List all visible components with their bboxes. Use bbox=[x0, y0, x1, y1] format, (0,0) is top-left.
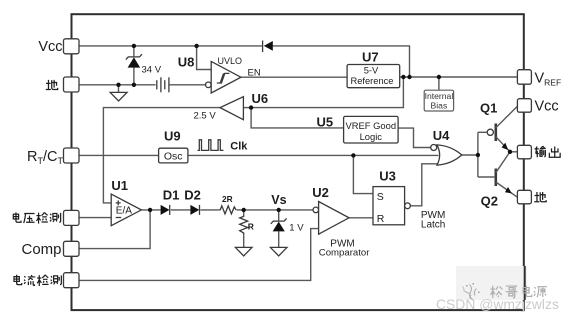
svg-text:U3: U3 bbox=[379, 169, 396, 184]
or-gate U4 bbox=[431, 145, 462, 166]
pin label current sense 电流检测 bbox=[14, 275, 61, 286]
svg-text:Osc: Osc bbox=[164, 150, 183, 162]
wire Q1 base segment bbox=[478, 131, 487, 133]
svg-text:Comp: Comp bbox=[21, 241, 61, 258]
label R bbox=[248, 222, 254, 232]
wire VREF net U7 output to VREF pin bbox=[400, 76, 518, 78]
junction: output pin node Q1/Q2 bbox=[508, 150, 512, 154]
label U1 bbox=[111, 178, 128, 193]
wire driver vertical between Q1 and Q2 bases bbox=[477, 132, 479, 177]
pin label VREF bbox=[535, 71, 562, 88]
svg-text:D1: D1 bbox=[163, 188, 180, 203]
svg-text:Vcc: Vcc bbox=[38, 39, 62, 55]
pin box current sense bbox=[64, 273, 80, 288]
junction: divider node at R bbox=[242, 208, 246, 212]
junction: zener top on Vcc rail bbox=[132, 44, 136, 48]
svg-text:U2: U2 bbox=[312, 185, 329, 200]
label PWM Comparator bbox=[319, 238, 370, 258]
wire U4 output to driver node bbox=[462, 154, 478, 156]
wire VREF branch down to U6 input line bbox=[251, 77, 403, 108]
watermark text 松哥电源 bbox=[490, 285, 547, 297]
svg-text:D2: D2 bbox=[184, 188, 201, 203]
label U6 bbox=[252, 91, 269, 106]
svg-text:2R: 2R bbox=[222, 194, 233, 204]
junction: Vs node bbox=[277, 208, 281, 212]
svg-text:1 V: 1 V bbox=[289, 223, 304, 234]
svg-text:Logic: Logic bbox=[360, 131, 383, 142]
label Clk bbox=[230, 140, 248, 152]
block Internal Bias bbox=[424, 90, 453, 111]
pin box VREF (right) bbox=[517, 70, 531, 85]
label Vs bbox=[271, 193, 286, 207]
label U8 bbox=[178, 55, 195, 70]
svg-text:E/A: E/A bbox=[116, 206, 132, 217]
pin label output 输出 bbox=[535, 146, 561, 157]
svg-text:Vcc: Vcc bbox=[535, 99, 559, 115]
op-amp U6 (2.5V reference buffer, points left) bbox=[220, 97, 243, 120]
IC boundary frame bbox=[72, 14, 524, 310]
wire R bottom to ground bbox=[243, 235, 245, 247]
junction: VREF net to Internal Bias bbox=[437, 75, 441, 79]
label 2R bbox=[222, 194, 233, 204]
pin label Comp bbox=[21, 241, 61, 258]
pin box Vcc (right) bbox=[517, 99, 531, 113]
pin box ground (left) bbox=[64, 77, 80, 92]
svg-text:U5: U5 bbox=[317, 115, 334, 130]
label UVLO bbox=[218, 56, 243, 66]
label U3 bbox=[379, 169, 396, 184]
resistor 2R horizontal bbox=[218, 206, 236, 214]
svg-text:Latch: Latch bbox=[421, 220, 445, 231]
svg-text:S: S bbox=[377, 191, 384, 203]
op-amp U2 PWM comparator bbox=[313, 202, 349, 235]
battery B1 (UVLO threshold) bbox=[157, 77, 169, 92]
label D2 bbox=[184, 188, 201, 203]
junction: Clk line to U3 S branch bbox=[351, 153, 355, 157]
label U7 bbox=[362, 50, 379, 65]
label EN bbox=[248, 68, 261, 79]
junction: VREF net to U6 branch bbox=[401, 75, 405, 79]
pin box ground (right) bbox=[517, 190, 531, 204]
pin label RT/CT bbox=[27, 149, 63, 166]
svg-text:EN: EN bbox=[248, 68, 261, 79]
wire 2.5V from U6 output to U1 plus input bbox=[103, 108, 220, 203]
wire U6 input stub bbox=[243, 107, 251, 109]
pin label ground (right) 地 bbox=[534, 192, 546, 202]
svg-text:U4: U4 bbox=[433, 128, 450, 143]
transistor Q2 bbox=[496, 152, 518, 197]
wire Clk branch down to U3 S input bbox=[353, 155, 373, 193]
svg-text:2.5 V: 2.5 V bbox=[194, 111, 217, 122]
junction: U6 input node bbox=[249, 105, 253, 109]
label U9 bbox=[164, 129, 181, 144]
svg-text:U9: U9 bbox=[164, 129, 181, 144]
svg-text:CSDN @wmzjzwlzs: CSDN @wmzjzwlzs bbox=[436, 296, 559, 312]
wire ground rail bbox=[79, 84, 156, 86]
wire Comp pin feedback to U1 output bbox=[79, 210, 150, 249]
svg-text:Vs: Vs bbox=[271, 193, 286, 207]
wire 34V zener top bbox=[133, 46, 135, 57]
svg-text:5-V: 5-V bbox=[364, 66, 379, 76]
wire 34V zener bottom bbox=[133, 67, 135, 84]
svg-text:34 V: 34 V bbox=[142, 64, 162, 75]
junction: UVLO sense tap on Vcc rail bbox=[194, 44, 198, 48]
label U4 bbox=[433, 128, 450, 143]
svg-text:VREF Good: VREF Good bbox=[346, 120, 397, 131]
watermark logo bbox=[463, 283, 480, 300]
label U2 bbox=[312, 185, 329, 200]
wire Clk line Osc to U4 middle input bbox=[188, 154, 439, 156]
wire U3 output to U4 bottom input bbox=[410, 164, 438, 206]
label D1 bbox=[163, 188, 180, 203]
svg-text:U7: U7 bbox=[362, 50, 379, 65]
junction: VREF net to Vcc diode branch bbox=[407, 75, 411, 79]
wire D2 to 2R bbox=[200, 209, 218, 211]
svg-text:Comparator: Comparator bbox=[319, 248, 370, 259]
pin label ground (left) 地 bbox=[46, 80, 58, 90]
diode D1 bbox=[161, 205, 170, 215]
wire U6 input node down to U5 input bbox=[251, 108, 344, 128]
ground under zener bbox=[270, 247, 287, 256]
transistor Q1 bbox=[487, 106, 517, 152]
pin label voltage sense 电压检测 bbox=[13, 212, 60, 223]
svg-text:R: R bbox=[248, 222, 254, 232]
svg-text:Clk: Clk bbox=[230, 140, 248, 152]
junction: U1 output / Comp node bbox=[148, 208, 152, 212]
wire 2R to Vs node to U2 bubble bbox=[237, 209, 314, 211]
pin box output (right) bbox=[517, 145, 531, 159]
junction: U4 output drive node bbox=[476, 153, 480, 157]
wire output node to output pin bbox=[510, 151, 517, 153]
block U5 VREF Good Logic bbox=[344, 116, 399, 143]
wire UVLO sense drop to U8 upper input bbox=[197, 46, 212, 70]
wire Q2 base segment bbox=[478, 176, 494, 178]
diode D3 (Vcc to VREF, pointing left) bbox=[263, 41, 273, 53]
pin box RT/CT bbox=[64, 148, 80, 163]
pin box voltage sense bbox=[64, 210, 80, 225]
block U9 oscillator bbox=[159, 148, 188, 163]
diode D2 bbox=[190, 205, 199, 215]
junction: zener bottom on ground rail bbox=[132, 83, 136, 87]
wire RT/CT pin to Osc bbox=[79, 154, 159, 156]
svg-text:U8: U8 bbox=[178, 55, 195, 70]
wire U1 output to D1 bbox=[141, 209, 160, 211]
label U5 bbox=[317, 115, 334, 130]
wire voltage sense pin to U1 minus input bbox=[79, 217, 111, 219]
label PWM Latch bbox=[421, 210, 445, 231]
svg-text:Q2: Q2 bbox=[481, 194, 498, 209]
label Q1 bbox=[480, 101, 497, 116]
zener diode 34V bbox=[126, 54, 142, 67]
wire U5 output to U4 top input bbox=[398, 128, 431, 147]
svg-text:Q1: Q1 bbox=[480, 101, 497, 116]
wire R divider drop bbox=[243, 210, 245, 215]
svg-text:Internal: Internal bbox=[425, 91, 454, 101]
wire U2 output to U3 R input bbox=[349, 217, 373, 219]
svg-text:Bias: Bias bbox=[431, 101, 448, 111]
block U7 5-V Reference bbox=[347, 65, 400, 88]
wire Vcc rail right of diode to VREF node bbox=[273, 46, 410, 77]
label 1 V bbox=[289, 223, 304, 234]
watermark panel bbox=[456, 266, 527, 300]
watermark text CSDN bbox=[436, 296, 559, 312]
svg-text:U1: U1 bbox=[111, 178, 128, 193]
pin label Vcc (left) bbox=[38, 39, 62, 55]
svg-text:UVLO: UVLO bbox=[218, 56, 243, 66]
op-amp U8 UVLO comparator bbox=[206, 61, 241, 93]
label Q2 bbox=[481, 194, 498, 209]
wire Vs node to 1V zener bbox=[278, 210, 280, 221]
wire Vcc rail left bbox=[79, 45, 263, 47]
latch U3 S-R bbox=[373, 187, 410, 225]
Clk waveform pulses bbox=[198, 140, 224, 151]
wire 1V zener to ground bbox=[278, 231, 280, 247]
resistor R vertical bbox=[240, 215, 248, 236]
label 2.5 V bbox=[194, 111, 217, 122]
ground under R bbox=[235, 247, 252, 256]
label 34 V bbox=[142, 64, 162, 75]
zener diode 1V bbox=[271, 218, 287, 231]
wire D1 to D2 bbox=[171, 209, 191, 211]
wire current sense pin to U2 lower input bbox=[79, 229, 319, 281]
svg-text:R: R bbox=[377, 213, 385, 225]
ground symbol (under ground rail) bbox=[110, 92, 127, 101]
pin box Comp bbox=[64, 241, 80, 256]
wire battery to U8 lower input bbox=[170, 84, 206, 86]
wire Internal Bias drop bbox=[438, 77, 440, 90]
svg-text:U6: U6 bbox=[252, 91, 269, 106]
pin label Vcc (right) bbox=[535, 99, 559, 115]
op-amp U1 error amplifier E/A bbox=[111, 194, 141, 226]
junction: ground symbol tap on ground rail bbox=[116, 83, 120, 87]
wire EN from U8 output to U7 bbox=[241, 76, 347, 78]
pin box Vcc (left) bbox=[64, 39, 80, 54]
wire ground symbol stem top-left bbox=[118, 85, 120, 92]
svg-text:Reference: Reference bbox=[351, 76, 394, 86]
